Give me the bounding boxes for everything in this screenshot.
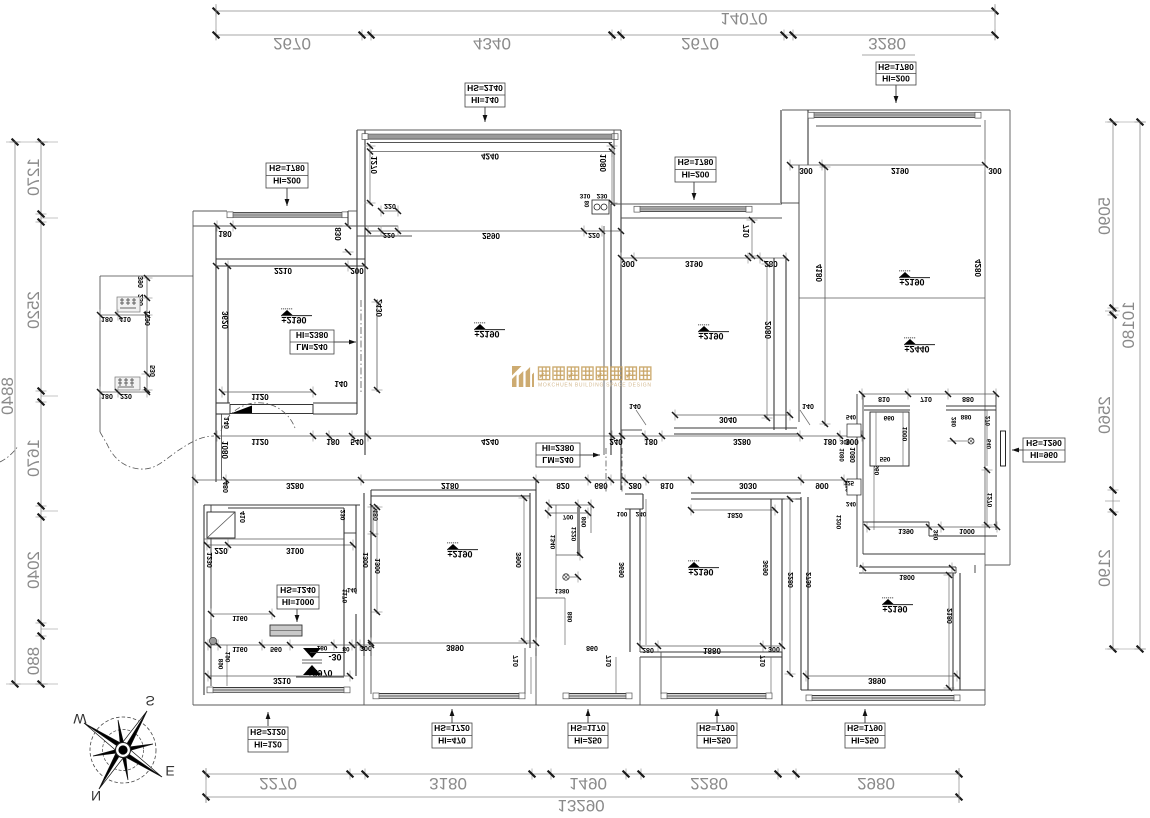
door leaf bedroom1: [230, 405, 313, 414]
svg-text:300: 300: [988, 166, 1002, 175]
svg-text:1670: 1670: [24, 439, 43, 477]
annotation box HS=1780 HI=200 top-right: [876, 62, 916, 85]
annex small gray label box 1: [117, 297, 140, 312]
svg-text:2270: 2270: [259, 774, 297, 793]
svg-text:HS=1790: HS=1790: [699, 723, 735, 733]
wall: kitchen left wall: [629, 509, 631, 652]
dimension chain: left overall 8840: [14, 142, 16, 684]
svg-text:1490: 1490: [569, 774, 607, 793]
svg-text:HI=200: HI=200: [882, 74, 910, 84]
wall: outer boundary top-right: [782, 109, 1010, 111]
svg-text:HS=1720: HS=1720: [434, 723, 470, 733]
svg-text:810: 810: [878, 395, 890, 402]
svg-text:±2440: ±2440: [905, 344, 930, 354]
dimension chain: top overall 14070: [216, 10, 995, 12]
svg-text:540: 540: [350, 437, 364, 446]
svg-text:4240: 4240: [481, 152, 499, 161]
dim 3040 dining bottom: [675, 414, 790, 416]
annotation box HS=1790 HI=250 (4): [716, 709, 718, 723]
svg-text:540: 540: [846, 413, 857, 419]
window: segment below pantry: [563, 693, 632, 695]
svg-text:310: 310: [580, 192, 591, 199]
svg-text:480: 480: [373, 509, 380, 521]
svg-text:1220: 1220: [571, 527, 578, 542]
wall: bedroom1 left wall: [215, 226, 217, 482]
wall: bedroom2 top wall: [371, 489, 536, 491]
annotation box HS=1720 HI=470: [451, 709, 453, 723]
dim 3890 right bedroom bottom: [806, 675, 957, 677]
svg-text:2040: 2040: [24, 551, 43, 589]
svg-text:3890: 3890: [446, 643, 464, 652]
wall: bedroom1/living divider: [356, 130, 358, 414]
svg-text:1120: 1120: [251, 437, 269, 446]
dimension chain: right overall 10180: [1139, 122, 1141, 649]
dim 3890 bedroom2 bottom: [371, 642, 536, 644]
svg-text:300: 300: [360, 644, 372, 651]
svg-text:14070: 14070: [720, 9, 767, 28]
svg-text:2590: 2590: [482, 231, 500, 240]
svg-text:2670: 2670: [273, 34, 311, 53]
svg-text:710: 710: [920, 395, 932, 402]
svg-text:2190: 2190: [891, 166, 909, 175]
wall: right bedroom top wall: [859, 566, 956, 568]
wall: outer boundary bottom: [193, 704, 985, 706]
svg-text:±2190: ±2190: [689, 567, 714, 577]
svg-text:1800: 1800: [899, 573, 915, 580]
svg-text:220: 220: [214, 546, 228, 555]
dimension chain: right segments 5090/2560/2190: [1112, 122, 1114, 649]
svg-text:3280: 3280: [286, 481, 304, 490]
wall: left annex outline: [100, 275, 193, 277]
svg-text:3690: 3690: [763, 560, 770, 576]
svg-text:2280: 2280: [690, 774, 728, 793]
svg-text:3280: 3280: [868, 34, 906, 53]
svg-text:710: 710: [606, 655, 613, 667]
floor drain pantry: [570, 576, 578, 578]
svg-text:860: 860: [586, 644, 598, 651]
vertical dim 3900 bedroom2: [523, 496, 525, 643]
svg-text:E: E: [165, 763, 174, 779]
svg-text:2520: 2520: [24, 291, 43, 329]
svg-text:3280: 3280: [733, 437, 751, 446]
level marker bedroom2 +-2190: [447, 543, 478, 550]
dimension row bathroom top 810/710/880: [862, 393, 996, 395]
annotation box HI=2380 LM=240 center: [536, 443, 580, 467]
level marker dining +-2190: [698, 325, 729, 332]
svg-text:HI=200: HI=200: [273, 176, 301, 186]
wall: lower-left room left wall: [203, 505, 205, 695]
svg-text:HI=250: HI=250: [851, 736, 879, 746]
dash-dot door axis bedroom1: [360, 300, 362, 392]
svg-text:180: 180: [326, 437, 340, 446]
wall: right bedroom bottom: [801, 689, 985, 691]
dimension chain: bottom overall 13290: [206, 796, 959, 798]
svg-text:±2190: ±2190: [699, 331, 724, 341]
svg-text:700: 700: [563, 513, 574, 520]
room divider line top-right: [799, 297, 985, 299]
wall: right bedroom right wall: [952, 573, 954, 690]
interior dimension row y480 (3280/2180/820/680/280/810/3030/900): [195, 479, 844, 481]
wall: kitchen top wall + door: [625, 493, 643, 495]
svg-text:220: 220: [384, 202, 396, 209]
svg-text:HS=1170: HS=1170: [570, 723, 605, 733]
wall: bathroom bottom wall with step: [863, 521, 929, 523]
level marker top-right room +-2190: [899, 271, 930, 278]
svg-text:220: 220: [383, 231, 395, 238]
svg-text:220: 220: [588, 231, 600, 238]
level marker kitchen +-2190: [688, 561, 719, 568]
wall: balcony/bedroom1 divider: [216, 258, 365, 260]
svg-text:1880: 1880: [703, 646, 721, 655]
svg-text:180: 180: [218, 229, 232, 238]
annex vertical dim chain 390/230/1790/530: [146, 278, 148, 390]
wall: top-right thick column: [780, 110, 782, 203]
wall: lower-left room top wall: [204, 504, 360, 506]
svg-text:410: 410: [119, 315, 131, 322]
level marker living +-2190: [474, 323, 505, 330]
svg-text:1300: 1300: [363, 552, 370, 568]
wall: kitchen bottom wall: [640, 651, 782, 653]
svg-text:800: 800: [581, 517, 588, 528]
wall: right bedroom left wall: [800, 497, 802, 690]
svg-text:2670: 2670: [681, 34, 719, 53]
window: kitchen bottom window: [661, 693, 772, 695]
svg-text:HI=2380: HI=2380: [296, 330, 329, 340]
svg-text:180: 180: [644, 437, 658, 446]
svg-text:LM=240: LM=240: [296, 342, 328, 352]
annex small gray label box 2: [115, 377, 140, 390]
annotation box HS=1240 HI=1000: [277, 585, 319, 609]
wall: dining top wall + window: [611, 203, 782, 205]
svg-text:4340: 4340: [473, 34, 511, 53]
wall: living steps at left: [348, 225, 398, 227]
dimension chain: bottom segments 2270/3180/1490/2280/2980: [206, 773, 959, 775]
wall segment below pantry: [536, 597, 565, 599]
svg-text:230: 230: [340, 510, 347, 521]
level step marker -30 / -+2970: [303, 648, 321, 658]
svg-text:N: N: [91, 788, 101, 804]
window: lower-left bottom window: [207, 687, 350, 689]
svg-text:1080: 1080: [850, 447, 857, 463]
svg-text:3100: 3100: [286, 546, 304, 555]
svg-text:240: 240: [846, 500, 857, 506]
wall: dining bottom + door: [674, 427, 797, 429]
svg-text:1080: 1080: [840, 448, 846, 462]
svg-text:4240: 4240: [481, 437, 499, 446]
annotation box HS=1170 HI=250: [587, 709, 589, 723]
svg-text:710: 710: [760, 655, 767, 667]
svg-text:HI=250: HI=250: [703, 736, 731, 746]
wall: kitchen right wall: [770, 499, 772, 652]
dimension 300/2190 top-right: [790, 164, 985, 166]
svg-text:1390: 1390: [898, 527, 914, 534]
svg-text:2980: 2980: [857, 774, 895, 793]
svg-text:830: 830: [334, 227, 343, 241]
svg-text:1270: 1270: [370, 156, 379, 174]
svg-text:140: 140: [629, 402, 641, 409]
svg-text:HS=1780: HS=1780: [678, 157, 714, 167]
svg-text:1380: 1380: [555, 587, 570, 594]
svg-text:±2190: ±2190: [883, 604, 908, 614]
svg-text:2180: 2180: [441, 481, 459, 490]
svg-text:240: 240: [636, 510, 647, 517]
svg-text:HS=1290: HS=1290: [1026, 438, 1062, 448]
dim 1800 right bedroom top: [859, 567, 956, 569]
svg-text:HS=1780: HS=1780: [878, 62, 914, 72]
svg-text:±2190: ±2190: [282, 315, 307, 325]
wardrobe box lower-left: [207, 512, 235, 538]
svg-text:HI=960: HI=960: [1030, 450, 1058, 460]
vertical dim 1300: [376, 505, 378, 614]
annotation box HS=2140 HI=140 top: [465, 83, 505, 107]
svg-text:880: 880: [962, 395, 974, 402]
svg-text:±2190: ±2190: [900, 277, 925, 287]
svg-text:-30: -30: [328, 652, 341, 662]
window: living room top window: [357, 129, 621, 131]
dimension chain: top segments 2670/4340/2670/3280: [216, 34, 995, 36]
svg-text:900: 900: [815, 481, 829, 490]
wall: bathroom right wall: [995, 394, 997, 530]
demolition dashed curve: [100, 432, 214, 469]
window: top-right room window: [808, 112, 981, 114]
dash-dot door axes living-corridor: [605, 448, 607, 492]
svg-text:710: 710: [513, 655, 520, 667]
svg-text:W: W: [73, 711, 87, 727]
svg-text:560: 560: [270, 645, 282, 652]
svg-text:880: 880: [961, 413, 972, 420]
pantry boxes: [549, 504, 591, 506]
svg-text:MOKCHUEN BUILDING SPACE DESIGN: MOKCHUEN BUILDING SPACE DESIGN: [538, 383, 651, 389]
svg-text:HI=1000: HI=1000: [282, 597, 315, 607]
svg-text:LM=240: LM=240: [542, 455, 574, 465]
svg-text:1000: 1000: [902, 427, 909, 442]
svg-text:3040: 3040: [719, 415, 737, 424]
svg-text:1300: 1300: [375, 558, 382, 574]
dimension 4240 living window: [370, 151, 612, 153]
svg-text:140: 140: [334, 379, 348, 388]
svg-text:480: 480: [223, 481, 230, 493]
svg-text:180: 180: [101, 392, 113, 399]
svg-text:5090: 5090: [1095, 197, 1114, 235]
svg-text:180: 180: [823, 437, 837, 446]
svg-text:2730: 2730: [806, 572, 813, 588]
svg-text:880: 880: [567, 612, 574, 623]
svg-text:1820: 1820: [727, 511, 743, 518]
svg-text:300: 300: [840, 438, 851, 444]
window bay bedroom2: [370, 648, 372, 694]
svg-text:S: S: [145, 693, 154, 709]
annotation box HI=2380 LM=240 bedroom1: [290, 330, 334, 354]
svg-text:3620: 3620: [221, 311, 230, 329]
svg-text:3210: 3210: [273, 676, 291, 685]
wall: hall/bathroom left wall: [856, 394, 858, 567]
svg-text:660: 660: [884, 414, 895, 421]
svg-text:125: 125: [844, 479, 855, 485]
svg-text:240: 240: [609, 437, 623, 446]
svg-text:HS=1790: HS=1790: [847, 723, 883, 733]
svg-text:3180: 3180: [429, 774, 467, 793]
svg-text:3690: 3690: [619, 562, 626, 578]
svg-text:230: 230: [597, 192, 608, 199]
dimension row kitchen bottom 280/1880/300: [640, 645, 782, 647]
dimension 1120 door: [222, 391, 313, 393]
svg-text:±2190: ±2190: [475, 329, 500, 339]
svg-text:HS=2120: HS=2120: [250, 727, 286, 737]
window: right bedroom bottom window: [806, 695, 960, 697]
annex dims 180/410 and 180/220: [100, 314, 147, 316]
watermark logo MOKCHUEN: [512, 366, 534, 387]
svg-text:2080: 2080: [764, 321, 773, 339]
level marker bedroom1 +-2190: [281, 309, 312, 316]
svg-text:640: 640: [987, 439, 993, 450]
svg-text:300: 300: [621, 259, 635, 268]
vertical dims right bedroom: [789, 497, 791, 676]
dimension row bathroom bottom 1390/1000: [867, 526, 997, 528]
door lower-left room right: [343, 533, 345, 676]
annotation box HS=1790 HI=250 (5): [864, 709, 866, 723]
svg-text:8840: 8840: [0, 377, 17, 415]
svg-text:190: 190: [225, 652, 232, 663]
svg-text:300: 300: [768, 645, 780, 652]
annotation box HS=1290 HI=960 entry: [1023, 438, 1065, 462]
svg-text:220: 220: [120, 392, 132, 399]
svg-text:1120: 1120: [251, 392, 269, 401]
svg-text:1080: 1080: [599, 154, 608, 172]
dim 1160: [211, 613, 272, 615]
svg-text:±2970: ±2970: [308, 668, 333, 678]
svg-text:3900: 3900: [516, 552, 523, 568]
svg-text:1270: 1270: [987, 493, 994, 508]
wall: outer boundary left: [192, 211, 194, 705]
svg-text:140: 140: [802, 402, 814, 409]
svg-text:1340: 1340: [550, 535, 557, 550]
dimension chain: left segments 1270/2520/1670/2040/880: [40, 142, 42, 684]
svg-text:280: 280: [628, 481, 642, 490]
svg-text:4180: 4180: [815, 264, 824, 282]
svg-text:1790: 1790: [145, 310, 152, 326]
vertical dim 4180: [824, 165, 826, 426]
window: bedroom2 bottom window: [373, 693, 525, 695]
wall: bathroom top wall: [864, 405, 910, 407]
dimension row 220/2590/220 living upper: [368, 230, 621, 232]
svg-text:10180: 10180: [1119, 301, 1138, 348]
compass rose: [84, 711, 162, 789]
dim 220/3100: [207, 544, 353, 546]
svg-text:1160: 1160: [232, 645, 247, 652]
annotation box HS=1780 HI=200 top-left: [266, 163, 308, 188]
svg-text:810: 810: [660, 481, 674, 490]
entry door leaf: [1001, 431, 1006, 466]
step walls right of lower-left room: [343, 508, 345, 533]
svg-text:390: 390: [138, 276, 145, 288]
watermark chinese text (stroke art): [539, 367, 651, 380]
svg-text:HI=140: HI=140: [471, 95, 499, 105]
svg-text:100: 100: [617, 510, 628, 517]
svg-text:180: 180: [101, 315, 113, 322]
svg-text:300: 300: [799, 166, 813, 175]
svg-text:2560: 2560: [1095, 396, 1114, 434]
svg-text:3890: 3890: [868, 676, 886, 685]
svg-text:1270: 1270: [24, 158, 43, 196]
bench with hatch lower-left: [270, 625, 302, 636]
svg-text:380: 380: [933, 530, 940, 541]
svg-text:HS=1240: HS=1240: [280, 585, 316, 595]
door swing arc bedroom1 (dash-dot): [221, 403, 295, 431]
window: top-left balcony window: [227, 211, 348, 213]
svg-text:13290: 13290: [557, 796, 604, 815]
svg-text:HI=250: HI=250: [574, 736, 602, 746]
wall: lower-left/bedroom2 divider: [363, 493, 365, 656]
dimension row 300/3190/280 dining top: [621, 257, 786, 259]
svg-text:890: 890: [218, 659, 225, 670]
svg-text:140: 140: [347, 586, 358, 592]
svg-text:HI=2380: HI=2380: [542, 443, 575, 453]
dim 3210 lower-left bottom: [208, 675, 350, 677]
wall: bedroom2 right wall: [529, 493, 531, 648]
svg-text:HI=200: HI=200: [682, 170, 710, 180]
svg-text:1160: 1160: [232, 614, 247, 621]
counter line lower-left: [204, 538, 344, 540]
wall: bedroom1 south wall + door opening: [216, 402, 230, 404]
svg-text:3030: 3030: [739, 481, 757, 490]
level marker right bedroom +-2190: [882, 598, 913, 605]
level marker +-2440: [904, 338, 935, 345]
svg-text:550: 550: [880, 455, 891, 462]
hall pipe boxes: [847, 424, 861, 437]
svg-text:HS=1780: HS=1780: [269, 163, 305, 173]
annotation box HS=1780 HI=200 dining: [675, 157, 716, 182]
shower box bathroom: [870, 412, 909, 466]
svg-text:3190: 3190: [685, 259, 703, 268]
svg-text:2280: 2280: [788, 572, 795, 588]
svg-text:HS=2140: HS=2140: [467, 83, 503, 93]
svg-text:HI=120: HI=120: [254, 740, 282, 750]
svg-text:140: 140: [224, 417, 231, 429]
svg-text:2210: 2210: [274, 266, 292, 275]
dim 1820 kitchen: [691, 509, 775, 511]
svg-text:820: 820: [556, 481, 570, 490]
svg-text:1000: 1000: [959, 527, 975, 534]
svg-text:4280: 4280: [974, 259, 983, 277]
interior dimension row y436 (1120/180/540/4240/240/180/3280/180/300): [217, 435, 862, 437]
svg-text:1200: 1200: [836, 515, 843, 530]
wall: living/dining wall: [610, 204, 612, 455]
svg-text:530: 530: [150, 365, 157, 377]
svg-text:HI=470: HI=470: [438, 736, 466, 746]
svg-text:280: 280: [952, 417, 958, 428]
wall: dining right wall: [773, 258, 775, 430]
svg-text:710: 710: [742, 224, 751, 238]
wall: top-right room left wall: [798, 165, 800, 422]
dimension row y645 lower-left: [208, 644, 371, 646]
annotation box HS=2120 HI=120: [267, 712, 269, 726]
svg-text:410: 410: [240, 511, 247, 523]
svg-text:880: 880: [24, 647, 43, 675]
svg-text:80: 80: [585, 201, 591, 208]
svg-text:2190: 2190: [1095, 549, 1114, 587]
svg-text:±2190: ±2190: [448, 549, 473, 559]
svg-text:1080: 1080: [221, 441, 230, 459]
wall: dining left lower: [620, 430, 622, 490]
svg-text:1230: 1230: [207, 552, 214, 568]
svg-text:80: 80: [342, 645, 350, 652]
